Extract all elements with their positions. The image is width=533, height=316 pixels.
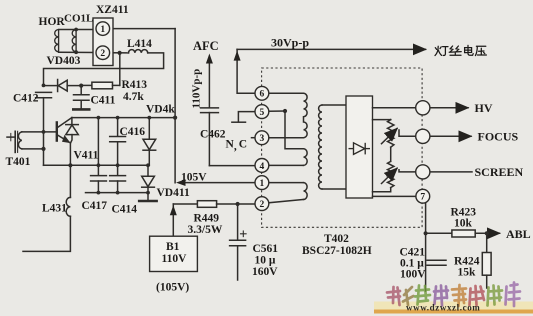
- svg-text:105V: 105V: [181, 172, 207, 184]
- svg-text:www.dzwxzl.com: www.dzwxzl.com: [406, 303, 480, 313]
- wire T401 top to base: [22, 131, 57, 133]
- svg-text:3.3/5W: 3.3/5W: [188, 224, 223, 236]
- svg-text:7: 7: [420, 193, 425, 203]
- svg-text:R449: R449: [194, 213, 220, 225]
- pin 7: [416, 189, 430, 203]
- wire HV out: [373, 107, 416, 109]
- arrow up AFC: [206, 54, 213, 64]
- wm char 7: [488, 286, 503, 306]
- wire pin5 to tap: [269, 110, 285, 112]
- capacitor C561 plus sign: [241, 231, 247, 237]
- wire secondary top to HV box: [322, 104, 346, 106]
- wire screen wiper to terminal: [399, 170, 416, 172]
- wire pin3 to winding: [269, 137, 304, 139]
- XZ411 pin 2 circle: [96, 46, 110, 60]
- svg-text:C412: C412: [13, 93, 39, 105]
- capacitor C561: [230, 204, 246, 280]
- svg-text:L414: L414: [127, 38, 152, 50]
- watermark big characters: [387, 283, 520, 307]
- pin 3: [255, 131, 269, 145]
- connector XZ411 box: [93, 18, 113, 66]
- wm char 8: [506, 283, 521, 307]
- wire pin1 to winding: [269, 182, 304, 184]
- wire R424 bottom: [486, 275, 488, 288]
- wire AFC riser with C462: [201, 61, 255, 166]
- wire down to R424: [486, 233, 488, 252]
- wire R423 to ABL: [475, 232, 499, 234]
- HOR coil winding left: [55, 30, 59, 52]
- wire pin7 down: [425, 202, 427, 291]
- wire pot link: [390, 147, 392, 161]
- svg-text:(105V): (105V): [156, 282, 189, 294]
- arrow left 105V: [176, 179, 186, 186]
- wire pin1 XZ411 top: [59, 29, 96, 31]
- T402 pin circles: [255, 86, 430, 210]
- capacitor C421: [427, 260, 446, 265]
- watermark strip: [374, 302, 533, 314]
- wm char 2: [403, 287, 414, 305]
- transformer T401: [7, 131, 22, 152]
- wire HV arrow: [430, 107, 468, 109]
- transistor V411: [57, 118, 72, 143]
- svg-text:FOCUS: FOCUS: [478, 130, 519, 144]
- svg-text:C561: C561: [253, 243, 279, 255]
- char dian (electric): [465, 45, 474, 55]
- svg-text:XZ411: XZ411: [96, 4, 129, 16]
- potentiometer screen: [388, 161, 394, 187]
- pin number labels: [100, 25, 425, 210]
- wire box to focus pot: [373, 119, 391, 121]
- svg-text:C416: C416: [120, 126, 146, 138]
- svg-text:C414: C414: [112, 204, 138, 216]
- T402 primary winding D: [304, 183, 308, 200]
- wire pin5 NC stub: [238, 112, 255, 122]
- pin 4: [255, 159, 269, 173]
- NC bar: [232, 121, 246, 123]
- HOR coil winding right: [72, 30, 76, 52]
- wire screen out: [430, 171, 472, 173]
- capacitor C414: [110, 165, 126, 192]
- svg-text:15k: 15k: [458, 267, 477, 279]
- screen pot wiper arrow: [382, 168, 398, 183]
- wire HOR coil bottom: [59, 51, 96, 53]
- resistor R413: [81, 82, 120, 89]
- potentiometer focus: [388, 120, 394, 148]
- battery B1 box: [150, 236, 198, 271]
- svg-text:10 μ: 10 μ: [255, 255, 276, 267]
- terminal HV: [416, 101, 430, 115]
- wire R449 row: [173, 203, 197, 205]
- arrow up at 30Vp-p corner: [234, 51, 241, 61]
- wire box bottom to pin7: [373, 195, 416, 197]
- wire pin3 left stub: [252, 137, 256, 139]
- wire pin1 right to vertical bus: [110, 28, 176, 30]
- wire pin1 105V left with arrow: [180, 182, 255, 184]
- svg-text:3: 3: [260, 134, 265, 144]
- damper diode at V411: [66, 118, 79, 144]
- svg-text:N,C: N,C: [226, 139, 248, 153]
- pin 5: [255, 105, 269, 119]
- T402 secondary winding: [319, 105, 322, 189]
- wire T401 bottom to node: [22, 148, 44, 150]
- wm char 6: [470, 286, 485, 305]
- wire emitter rail: [44, 164, 150, 166]
- wm char 4: [434, 286, 448, 306]
- svg-text:110Vp-p: 110Vp-p: [191, 69, 203, 109]
- terminal SCREEN: [416, 165, 430, 179]
- wire secondary bottom to HV box: [322, 188, 346, 190]
- capacitor C412: [36, 92, 52, 165]
- wire focus wiper to terminal: [399, 130, 416, 136]
- svg-text:2: 2: [260, 200, 265, 210]
- inductor L414: [129, 50, 148, 53]
- svg-text:HOR: HOR: [39, 16, 66, 28]
- char deng (lamp): [435, 46, 448, 55]
- svg-text:5: 5: [260, 108, 265, 118]
- svg-text:160V: 160V: [252, 266, 278, 278]
- dashed outline T402: [262, 68, 423, 227]
- svg-text:1: 1: [100, 25, 105, 35]
- svg-text:2: 2: [100, 49, 105, 59]
- svg-text:CO1L: CO1L: [64, 13, 93, 25]
- svg-text:T402: T402: [324, 233, 349, 245]
- capacitor C416: [110, 118, 126, 166]
- svg-text:C462: C462: [200, 129, 226, 141]
- HV rectifier box: [346, 96, 373, 198]
- resistor R423: [452, 230, 475, 237]
- svg-text:ABL: ABL: [506, 227, 531, 241]
- wire L431 bottom: [23, 216, 70, 251]
- wm char 1: [387, 287, 400, 305]
- wire 30Vp-p filament line: [237, 48, 425, 50]
- wire pin6 to winding: [269, 92, 304, 94]
- svg-text:HV: HV: [475, 101, 493, 115]
- svg-text:SCREEN: SCREEN: [475, 165, 524, 179]
- svg-text:V411: V411: [74, 150, 99, 162]
- svg-text:B1: B1: [166, 241, 180, 253]
- char ya (voltage): [475, 46, 486, 55]
- svg-text:4: 4: [260, 162, 265, 172]
- wire focus arrow: [430, 135, 471, 137]
- wire collector rail: [72, 117, 175, 119]
- wire pin4 to winding: [269, 164, 304, 166]
- svg-text:VD4k: VD4k: [146, 104, 175, 116]
- svg-text:30Vp-p: 30Vp-p: [271, 36, 309, 50]
- diode VD4k: [143, 118, 156, 166]
- svg-text:4.7k: 4.7k: [123, 91, 144, 103]
- wire pin6 left riser 30Vp-p: [237, 49, 255, 93]
- svg-text:1: 1: [260, 179, 265, 189]
- ground under VD411: [139, 200, 156, 203]
- arrow up at B1 riser: [170, 205, 177, 215]
- wire B1 riser: [172, 204, 174, 236]
- svg-text:10k: 10k: [454, 218, 473, 230]
- T402 primary winding C: [304, 149, 308, 166]
- pin 6: [255, 86, 269, 100]
- resistor R449: [197, 201, 216, 208]
- XZ411 pin 1 circle: [96, 22, 110, 36]
- terminal FOCUS: [416, 129, 430, 143]
- wire vertical bus x175: [174, 29, 176, 183]
- wm char 3: [415, 286, 430, 305]
- wire vertical plain x98: [97, 118, 99, 166]
- inductor L431: [66, 197, 70, 216]
- char si (silk): [449, 46, 461, 55]
- wire emitter down: [69, 143, 71, 197]
- wire L414 to corner: [44, 53, 164, 86]
- svg-text:AFC: AFC: [193, 39, 219, 53]
- wire bottom cap rail: [86, 192, 149, 194]
- wire to R423: [426, 232, 452, 234]
- svg-text:R413: R413: [122, 79, 148, 91]
- diode VD403a: [44, 80, 82, 92]
- label filament voltage (Chinese, drawn strokes): [435, 45, 486, 55]
- focus pot wiper arrow: [382, 129, 398, 144]
- pin 1: [255, 176, 269, 190]
- resistor R424: [482, 253, 491, 276]
- T402 primary winding A: [304, 93, 308, 137]
- svg-text:L431: L431: [42, 203, 67, 215]
- ground under C411: [73, 108, 89, 111]
- HV rectifier diode: [349, 143, 371, 155]
- wm char 5: [452, 285, 466, 306]
- diode VD411: [142, 165, 155, 200]
- svg-text:BSC27-1082H: BSC27-1082H: [302, 245, 372, 257]
- svg-text:C411: C411: [91, 95, 116, 107]
- wire pin2 right: [110, 52, 129, 54]
- svg-text:100V: 100V: [400, 269, 426, 281]
- svg-text:C417: C417: [82, 200, 108, 212]
- wire pin2 to winding: [269, 200, 304, 203]
- wire pin5 riser to winding C: [285, 111, 304, 149]
- capacitor C411: [74, 86, 90, 109]
- wire screen pot bottom to box: [373, 188, 391, 192]
- capacitor C417: [91, 165, 107, 192]
- svg-text:110V: 110V: [162, 253, 188, 265]
- svg-text:VD411: VD411: [157, 187, 190, 199]
- svg-text:6: 6: [260, 90, 265, 100]
- svg-text:VD403: VD403: [47, 55, 81, 67]
- wire R449 to pin2: [217, 203, 255, 205]
- svg-text:T401: T401: [6, 156, 31, 168]
- pin 2: [255, 197, 269, 211]
- wire R413 up to pin2 node: [119, 53, 121, 86]
